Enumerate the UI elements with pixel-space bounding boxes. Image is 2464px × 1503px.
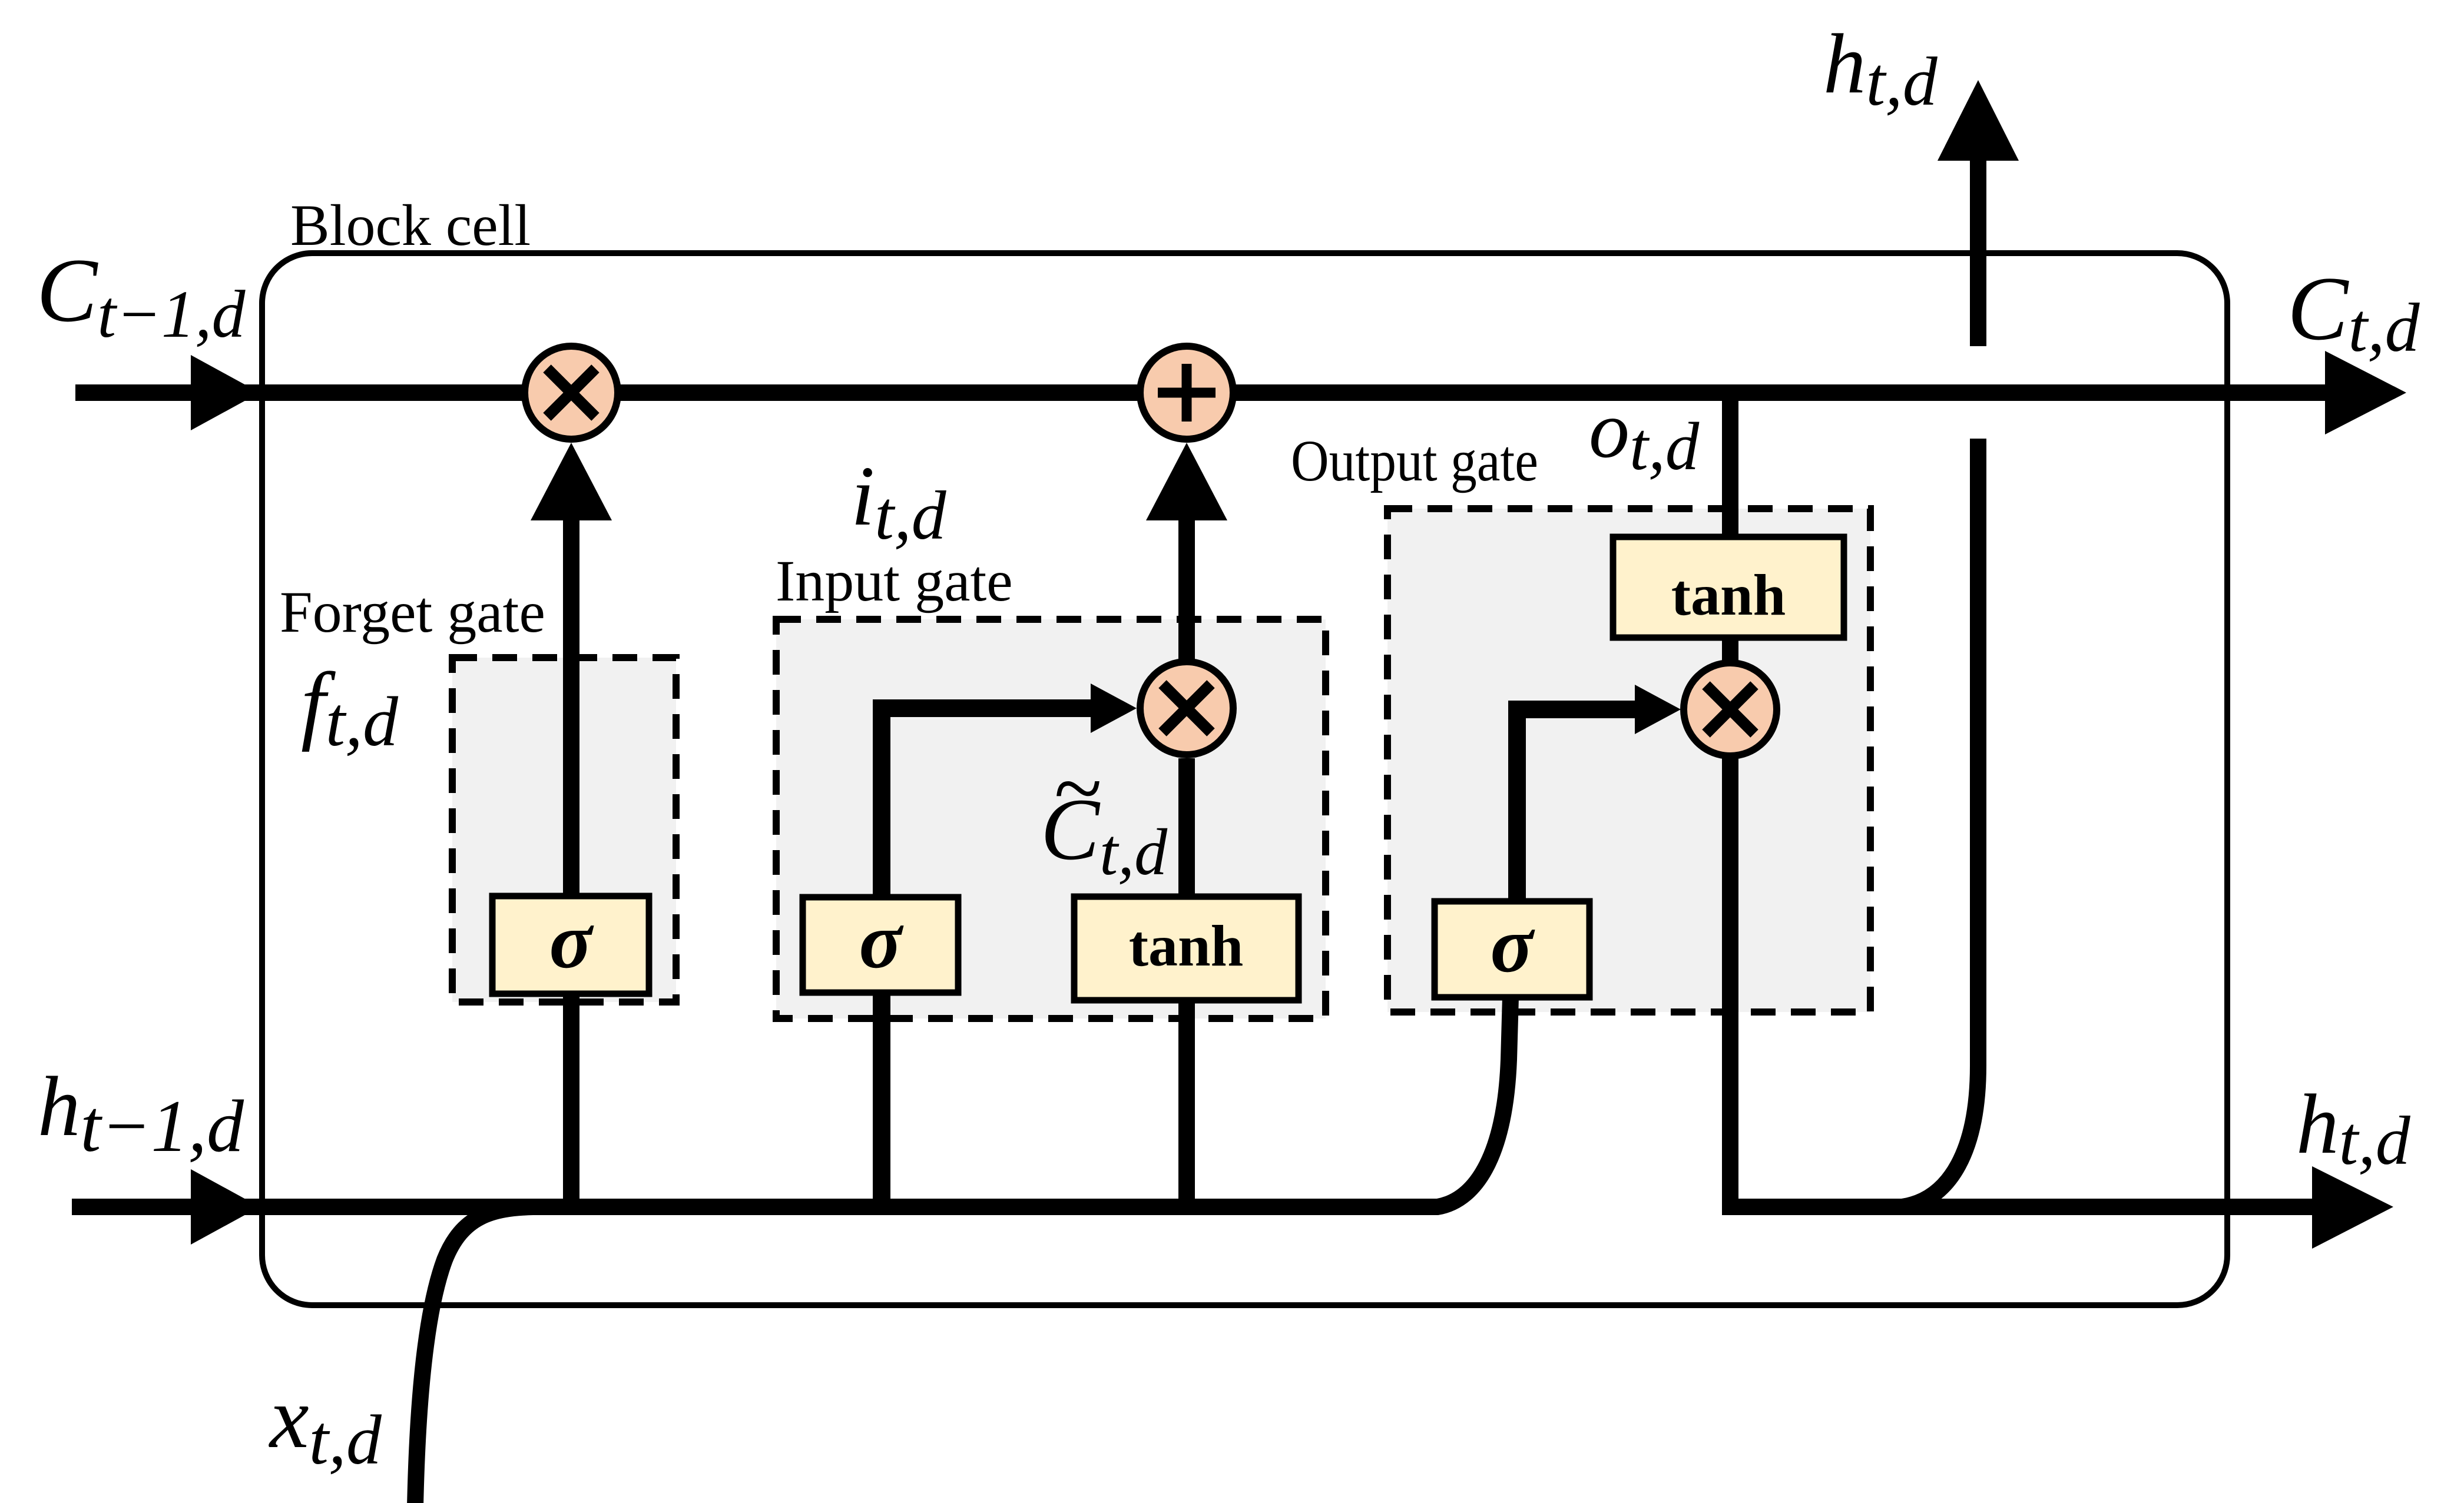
- wire: C to tanh2 vertical: [1722, 393, 1738, 661]
- svg-text:Input gate: Input gate: [776, 548, 1013, 613]
- sigma box output: [1435, 901, 1589, 997]
- wire: h t-1 input arrowhead: [191, 1169, 260, 1245]
- svg-text:~: ~: [1054, 739, 1102, 837]
- block cell rounded rectangle: [262, 253, 2227, 1305]
- wire: h top arrowhead: [1938, 80, 2019, 161]
- wire: x input curve: [415, 1207, 533, 1503]
- plus circle: [1140, 346, 1233, 439]
- wire: C cell-state horizontal line: [75, 384, 2332, 401]
- svg-text:Forget gate: Forget gate: [280, 579, 545, 645]
- svg-text:Output gate: Output gate: [1291, 428, 1538, 493]
- wire: X2 to plus circle line: [1178, 512, 1195, 659]
- wire: h top vertical above C line: [1970, 153, 1986, 346]
- multiply circle X2: [1140, 662, 1233, 755]
- sigma box input: [803, 897, 958, 993]
- input gate dashed box: [776, 619, 1326, 1018]
- wire: forget gate vertical line: [563, 512, 579, 1207]
- wire: X3 down to h line and right to output: [1730, 758, 2325, 1207]
- wire: arrowhead into X1: [531, 443, 612, 520]
- sigma box forget: [492, 896, 649, 994]
- svg-text:Block cell: Block cell: [290, 193, 531, 258]
- forget gate dashed box: [452, 658, 676, 1002]
- svg-text:σ: σ: [549, 897, 594, 985]
- multiply circle X1: [525, 346, 618, 439]
- tanh box input: [1074, 897, 1299, 1000]
- svg-text:tanh: tanh: [1129, 913, 1244, 978]
- multiply circle X3: [1684, 663, 1777, 756]
- wire: branch up to h top output: [1902, 439, 1978, 1207]
- svg-text:σ: σ: [859, 897, 904, 985]
- wire: C t-1 input arrowhead: [191, 355, 260, 430]
- wire: C t output arrowhead: [2325, 351, 2406, 434]
- wire: arrowhead into X2: [1091, 684, 1137, 733]
- wire: tanh1 vertical line: [1178, 758, 1195, 1207]
- wire: arrowhead into X3: [1635, 685, 1681, 734]
- tanh box output: [1613, 537, 1844, 638]
- svg-text:tanh: tanh: [1671, 562, 1786, 628]
- svg-text:σ: σ: [1491, 901, 1535, 989]
- wire: h t output arrowhead: [2312, 1166, 2393, 1249]
- wire: input gate sigma line: [882, 708, 1095, 1207]
- wire: output gate sigma line: [1517, 709, 1640, 901]
- wire: arrowhead into plus: [1146, 443, 1227, 520]
- wire: h bottom line left segment: [72, 997, 1511, 1207]
- output gate dashed box: [1387, 509, 1870, 1012]
